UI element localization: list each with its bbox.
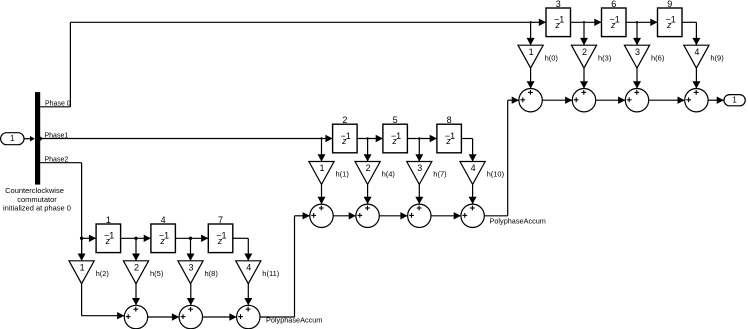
svg-text:h(7): h(7) [433, 170, 447, 179]
svg-text:1: 1 [10, 134, 15, 143]
svg-text:h(11): h(11) [262, 269, 279, 278]
svg-text:−1: −1 [216, 231, 226, 241]
svg-text:1: 1 [319, 163, 324, 173]
svg-text:h(1): h(1) [336, 170, 350, 179]
svg-text:7: 7 [218, 215, 223, 225]
svg-text:8: 8 [447, 115, 452, 125]
svg-text:5: 5 [393, 115, 398, 125]
svg-text:4: 4 [161, 215, 166, 225]
svg-text:1: 1 [80, 263, 85, 273]
svg-text:PolyphaseAccum: PolyphaseAccum [490, 217, 546, 226]
svg-text:4: 4 [471, 163, 476, 173]
svg-text:h(10): h(10) [487, 170, 505, 179]
svg-text:Phase 0: Phase 0 [45, 101, 71, 108]
svg-text:2: 2 [366, 163, 371, 173]
svg-text:Phase1: Phase1 [45, 132, 69, 139]
svg-text:4: 4 [694, 47, 699, 57]
svg-text:h(6): h(6) [651, 53, 665, 62]
svg-text:−1: −1 [665, 15, 675, 25]
svg-text:3: 3 [188, 263, 193, 273]
svg-text:1: 1 [732, 96, 737, 105]
svg-text:1: 1 [529, 47, 534, 57]
svg-text:3: 3 [635, 47, 640, 57]
svg-text:PolyphaseAccum: PolyphaseAccum [266, 315, 322, 324]
svg-text:2: 2 [134, 263, 139, 273]
svg-text:initialized at phase 0: initialized at phase 0 [3, 203, 71, 212]
svg-text:h(4): h(4) [382, 170, 396, 179]
svg-text:−1: −1 [341, 131, 351, 141]
svg-text:h(0): h(0) [545, 53, 559, 62]
svg-text:−1: −1 [104, 231, 114, 241]
svg-text:−1: −1 [554, 15, 564, 25]
svg-text:3: 3 [556, 0, 561, 9]
svg-text:4: 4 [246, 263, 251, 273]
svg-text:h(8): h(8) [205, 269, 219, 278]
svg-text:h(3): h(3) [598, 53, 612, 62]
svg-text:h(2): h(2) [96, 269, 110, 278]
svg-text:2: 2 [342, 115, 347, 125]
svg-text:Phase2: Phase2 [45, 156, 69, 163]
svg-text:1: 1 [106, 215, 111, 225]
svg-text:h(9): h(9) [710, 53, 724, 62]
svg-text:6: 6 [611, 0, 616, 9]
svg-text:−1: −1 [609, 15, 619, 25]
svg-text:−1: −1 [159, 231, 169, 241]
svg-text:−1: −1 [391, 131, 401, 141]
svg-text:9: 9 [667, 0, 672, 9]
svg-text:2: 2 [582, 47, 587, 57]
svg-text:−1: −1 [445, 131, 455, 141]
svg-text:3: 3 [417, 163, 422, 173]
svg-text:h(5): h(5) [150, 269, 164, 278]
